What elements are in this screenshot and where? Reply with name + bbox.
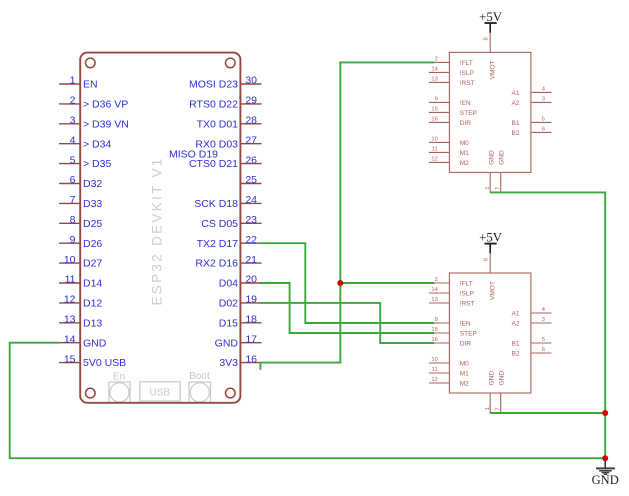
U3 pin 6 B2 <box>512 347 552 357</box>
U2 pin 6 B2 <box>512 127 552 137</box>
svg-text:4: 4 <box>542 87 546 93</box>
svg-text:+5V: +5V <box>479 10 503 24</box>
U3 pin 5 B1 <box>512 337 552 347</box>
U3 pin 3 A2 <box>512 317 552 327</box>
svg-text:> D36 VP: > D36 VP <box>83 99 128 111</box>
svg-text:7: 7 <box>70 194 76 206</box>
ESP32 pin 27 RX0 D03 <box>195 134 261 150</box>
wire D04 to U3 pin15 STEP <box>261 283 433 333</box>
svg-text:26: 26 <box>245 154 257 166</box>
svg-text:14: 14 <box>64 333 76 345</box>
U2 pin 11 M1 <box>429 147 469 157</box>
svg-text:D13: D13 <box>83 317 102 329</box>
svg-text:15: 15 <box>64 353 76 365</box>
ESP32 pin 30 MOSI D23 <box>189 75 261 91</box>
svg-text:24: 24 <box>245 194 257 206</box>
ESP32 pin 6 D32 <box>60 174 103 190</box>
svg-text:12: 12 <box>64 294 76 306</box>
U3 pin 11 M1 <box>429 367 469 377</box>
svg-text:19: 19 <box>245 294 257 306</box>
svg-text:EN: EN <box>83 79 98 91</box>
svg-text:1: 1 <box>485 186 491 189</box>
svg-text:STEP: STEP <box>460 331 478 338</box>
svg-text:16: 16 <box>431 117 437 123</box>
svg-text:4: 4 <box>542 307 546 313</box>
svg-text:10: 10 <box>431 137 437 143</box>
svg-text:!RST: !RST <box>460 301 475 308</box>
svg-text:GND: GND <box>499 371 506 386</box>
ESP32 pin 18 D15 <box>219 314 261 330</box>
svg-text:D26: D26 <box>83 238 102 250</box>
ESP32 pin 14 GND <box>60 333 107 349</box>
U3 pin 12 M2 <box>429 377 469 387</box>
svg-text:10: 10 <box>64 254 76 266</box>
ESP32 pin 3 D39 VN <box>60 115 129 131</box>
U2 pin 8 VMOT <box>484 33 497 80</box>
svg-text:GND: GND <box>215 337 239 349</box>
svg-text:STEP: STEP <box>460 110 478 117</box>
wire 3V3 net: to U2 pin2 !FLT <box>340 61 433 63</box>
svg-text:10: 10 <box>431 357 437 363</box>
svg-text:1: 1 <box>70 75 76 87</box>
svg-text:29: 29 <box>245 95 257 107</box>
+5V supply symbol for U3 <box>479 231 503 254</box>
U2 pin 3 A2 <box>512 97 552 107</box>
ESP32 pin 2 D36 VP <box>60 95 129 111</box>
svg-text:3: 3 <box>542 317 545 323</box>
svg-text:USB: USB <box>150 387 171 398</box>
U3 pin 13 !RST <box>429 297 475 307</box>
svg-text:CS D05: CS D05 <box>201 218 238 230</box>
svg-text:!FLT: !FLT <box>460 60 473 67</box>
svg-text:13: 13 <box>64 314 76 326</box>
svg-text:GND: GND <box>592 473 619 487</box>
svg-text:21: 21 <box>245 254 257 266</box>
svg-text:D15: D15 <box>219 317 238 329</box>
svg-text:27: 27 <box>245 134 257 146</box>
svg-text:7: 7 <box>495 407 501 410</box>
ESP32 pin 23 CS D05 <box>201 214 261 230</box>
svg-text:!EN: !EN <box>460 321 471 328</box>
svg-text:3: 3 <box>542 97 545 103</box>
svg-text:22: 22 <box>245 234 257 246</box>
ESP32 pin 10 D27 <box>60 254 103 270</box>
U3 pin 4 A1 <box>512 307 552 317</box>
wire 3V3 net: stub tick at pin16 <box>259 363 261 369</box>
U3 pin 2 !FLT <box>429 277 473 287</box>
svg-text:3: 3 <box>70 115 76 127</box>
svg-text:25: 25 <box>245 174 257 186</box>
svg-text:11: 11 <box>432 367 438 373</box>
U2 pin 2 !FLT <box>429 57 473 67</box>
svg-text:3V3: 3V3 <box>219 357 238 369</box>
mounting hole top-right <box>226 58 236 68</box>
svg-text:8: 8 <box>70 214 76 226</box>
U2 pin 12 M2 <box>429 157 469 167</box>
U2 pin 9 !EN <box>429 97 471 107</box>
svg-text:20: 20 <box>245 274 257 286</box>
ESP32 pin 8 D25 <box>60 214 103 230</box>
svg-text:M0: M0 <box>460 361 469 368</box>
svg-text:D25: D25 <box>83 218 102 230</box>
svg-text:9: 9 <box>435 317 438 323</box>
svg-text:6: 6 <box>70 174 76 186</box>
U2 pin 4 A1 <box>512 87 552 97</box>
svg-text:!SLP: !SLP <box>460 70 475 77</box>
svg-text:B1: B1 <box>512 120 520 127</box>
U2 pin 7 GND <box>495 150 505 192</box>
ESP32 pin 26 MISO D19 CTS0 D21 <box>169 148 261 170</box>
svg-text:A1: A1 <box>512 311 520 318</box>
svg-text:M0: M0 <box>460 140 469 147</box>
svg-text:M1: M1 <box>460 150 469 157</box>
U3 pin 7 GND <box>495 371 505 413</box>
svg-text:18: 18 <box>245 314 257 326</box>
svg-text:B1: B1 <box>512 341 520 348</box>
svg-text:VMOT: VMOT <box>489 60 496 79</box>
svg-text:> D39 VN: > D39 VN <box>83 118 129 130</box>
svg-text:A1: A1 <box>512 90 520 97</box>
ESP32 pin 13 D13 <box>60 314 103 330</box>
U3 pin 15 STEP <box>429 327 478 337</box>
svg-text:6: 6 <box>542 347 545 353</box>
wire 3V3 net: vertical up to U2 row <box>339 62 341 362</box>
ESP32 pin 9 D26 <box>60 234 103 250</box>
U2 pin 13 !RST <box>429 77 475 87</box>
stepper driver U3 <box>429 253 552 413</box>
ESP32 pin 4 D34 <box>60 134 112 150</box>
svg-text:GND: GND <box>488 371 495 386</box>
svg-text:DIR: DIR <box>460 341 472 348</box>
svg-text:13: 13 <box>431 297 437 303</box>
svg-text:DIR: DIR <box>460 120 472 127</box>
svg-text:D32: D32 <box>83 178 102 190</box>
ESP32 pin 15 5V0 USB <box>60 353 127 369</box>
svg-text:M2: M2 <box>460 381 469 388</box>
junction on GND net at U3 bottom wire <box>602 410 608 416</box>
svg-text:11: 11 <box>432 147 438 153</box>
svg-text:En: En <box>113 372 125 383</box>
GND power symbol <box>592 458 619 487</box>
svg-text:2: 2 <box>435 57 438 63</box>
svg-text:12: 12 <box>431 157 437 163</box>
U2 pin 16 DIR <box>429 117 471 127</box>
svg-text:2: 2 <box>435 277 438 283</box>
svg-text:RX2 D16: RX2 D16 <box>195 258 238 270</box>
svg-text:D27: D27 <box>83 258 102 270</box>
svg-text:MOSI D23: MOSI D23 <box>189 79 238 91</box>
wire TX2 D17 to U3 pin9 !EN <box>261 243 433 323</box>
stepper driver U2 <box>429 33 552 193</box>
svg-text:D14: D14 <box>83 278 102 290</box>
junction on GND net at ground symbol <box>602 455 608 461</box>
wire GND net: U3 bottom pins to riser <box>491 412 605 414</box>
U3 pin 10 M0 <box>429 357 469 367</box>
wire 3V3 net: junction to U3 pin2 !FLT <box>340 282 433 284</box>
svg-text:M2: M2 <box>460 160 469 167</box>
svg-text:5: 5 <box>542 117 545 123</box>
svg-text:28: 28 <box>245 115 257 127</box>
ESP32 pin 25 <box>240 174 261 186</box>
svg-text:1: 1 <box>485 407 491 410</box>
wire 3V3 net: ESP32 pin16 to vertical <box>261 362 340 364</box>
svg-text:!RST: !RST <box>460 80 475 87</box>
Boot button <box>189 371 211 403</box>
ESP32 pin 11 D14 <box>60 274 103 290</box>
svg-text:B2: B2 <box>512 130 520 137</box>
svg-text:5: 5 <box>70 154 76 166</box>
U2 pin 15 STEP <box>429 107 478 117</box>
U2 pin 1 GND <box>485 150 496 192</box>
svg-text:5: 5 <box>542 337 545 343</box>
svg-text:D02: D02 <box>219 298 238 310</box>
ESP32 pin 16 3V3 <box>219 353 261 369</box>
ESP32 body outline <box>80 53 240 403</box>
ESP32 pin 19 D02 <box>219 294 261 310</box>
mounting hole top-left <box>86 58 96 68</box>
ESP32 pin 24 SCK D18 <box>194 194 261 210</box>
svg-text:Boot: Boot <box>189 371 210 382</box>
svg-text:5V0 USB: 5V0 USB <box>83 357 126 369</box>
module ESP32 DEVKIT V1 <box>60 53 261 403</box>
wire GND net: ESP32 pin14 left then down then across bottom <box>10 343 606 459</box>
U3 pin 8 VMOT <box>484 253 497 300</box>
svg-text:12: 12 <box>431 377 437 383</box>
U3 pin 9 !EN <box>429 317 471 327</box>
svg-text:> D34: > D34 <box>83 138 111 150</box>
ESP32 pin 21 RX2 D16 <box>195 254 261 270</box>
U2 pin 14 !SLP <box>429 67 475 77</box>
ESP32 pin 7 D33 <box>60 194 103 210</box>
ESP32 pin 12 D12 <box>60 294 103 310</box>
U2 pin 10 M0 <box>429 137 469 147</box>
svg-text:!SLP: !SLP <box>460 291 475 298</box>
svg-text:D04: D04 <box>219 278 238 290</box>
ESP32 pin 1 EN <box>60 75 98 91</box>
ESP32 pin 17 GND <box>215 333 261 349</box>
mounting hole bottom-left <box>86 388 96 398</box>
svg-text:4: 4 <box>70 134 76 146</box>
svg-text:8: 8 <box>484 258 490 261</box>
mounting hole bottom-right <box>226 388 236 398</box>
ESP32 pin 20 D04 <box>219 274 261 290</box>
U3 pin 16 DIR <box>429 337 471 347</box>
svg-text:30: 30 <box>245 75 257 87</box>
svg-text:14: 14 <box>431 67 438 73</box>
svg-text:GND: GND <box>488 150 495 165</box>
svg-text:16: 16 <box>245 353 257 365</box>
svg-text:!EN: !EN <box>460 100 471 107</box>
svg-text:9: 9 <box>70 234 76 246</box>
wire GND net: vertical riser on right edge <box>604 192 606 458</box>
svg-text:2: 2 <box>70 95 76 107</box>
svg-text:RTS0 D22: RTS0 D22 <box>189 99 238 111</box>
U2 body outline <box>449 52 531 172</box>
svg-text:13: 13 <box>431 77 437 83</box>
svg-text:> D35: > D35 <box>83 158 111 170</box>
svg-text:GND: GND <box>499 150 506 165</box>
wire D02 to U3 pin16 DIR <box>261 303 433 343</box>
svg-text:!FLT: !FLT <box>460 281 473 288</box>
ESP32 pin 29 RTS0 D22 <box>189 95 261 111</box>
svg-text:TX0 D01: TX0 D01 <box>197 118 239 130</box>
junction on 3V3 net at U3 !FLT branch <box>337 280 343 286</box>
ESP32 pin 22 TX2 D17 <box>197 234 261 250</box>
svg-text:TX2 D17: TX2 D17 <box>197 238 239 250</box>
svg-text:B2: B2 <box>512 351 520 358</box>
ESP32 pin 28 TX0 D01 <box>197 115 261 131</box>
U3 pin 1 GND <box>485 371 496 413</box>
svg-text:11: 11 <box>65 274 76 286</box>
svg-text:SCK D18: SCK D18 <box>194 198 238 210</box>
En button <box>109 372 130 403</box>
svg-text:ESP32 DEVKIT V1: ESP32 DEVKIT V1 <box>150 156 165 305</box>
svg-text:7: 7 <box>495 187 501 190</box>
svg-text:6: 6 <box>542 127 545 133</box>
USB connector <box>140 382 180 401</box>
U3 pin 14 !SLP <box>429 287 475 297</box>
+5V supply symbol for U2 <box>479 10 503 33</box>
svg-text:23: 23 <box>245 214 257 226</box>
svg-text:9: 9 <box>435 97 438 103</box>
U2 pin 5 B1 <box>512 117 552 127</box>
svg-text:M1: M1 <box>460 371 469 378</box>
svg-text:A2: A2 <box>512 100 520 107</box>
svg-text:D12: D12 <box>83 298 102 310</box>
svg-text:14: 14 <box>431 287 438 293</box>
wire GND net: U2 bottom pins to riser <box>491 191 605 193</box>
svg-text:VMOT: VMOT <box>489 281 496 300</box>
svg-text:D33: D33 <box>83 198 102 210</box>
svg-text:8: 8 <box>484 37 490 40</box>
svg-text:17: 17 <box>245 333 257 345</box>
svg-text:A2: A2 <box>512 321 520 328</box>
svg-text:GND: GND <box>83 337 107 349</box>
U3 body outline <box>449 273 531 393</box>
svg-text:+5V: +5V <box>479 231 503 245</box>
svg-text:CTS0 D21: CTS0 D21 <box>189 158 238 170</box>
ESP32 pin 5 D35 <box>60 154 112 170</box>
svg-text:15: 15 <box>431 107 437 113</box>
